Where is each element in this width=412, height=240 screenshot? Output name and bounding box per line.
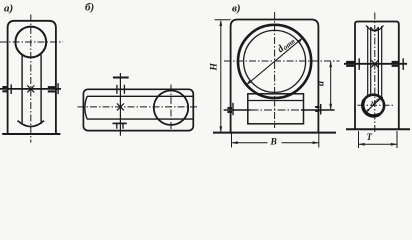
a label view v <box>315 81 326 86</box>
cylinder top line view b <box>87 95 193 97</box>
bottom base line view a <box>2 133 60 135</box>
screw stem view b <box>119 73 121 136</box>
slot bottom arc view a <box>18 121 45 127</box>
circle view b <box>154 91 188 125</box>
left screw tick view v <box>232 103 234 115</box>
B arrow left view v <box>232 141 238 144</box>
screw bottom ticks view b <box>117 123 123 128</box>
T dimension line side view <box>359 143 398 145</box>
slot outer left line side view <box>367 26 369 98</box>
cylinder bottom line view b <box>87 118 193 120</box>
slot inner right line side view <box>377 27 379 97</box>
cylinder break arc view b <box>85 96 87 119</box>
left screw nut bars view v <box>227 108 232 112</box>
body rectangle view b <box>83 89 193 130</box>
small diameter arrow side view <box>365 109 369 113</box>
screw top head bar view b <box>113 77 129 79</box>
inner hole circle view v <box>244 30 306 92</box>
frame outline side view <box>355 22 399 130</box>
horizontal centerline view b <box>78 106 200 108</box>
B dimension extension lines view v <box>232 134 319 148</box>
base line side view <box>346 128 410 130</box>
diameter arrow lower view v <box>247 80 252 85</box>
svg-text:б): б) <box>85 2 94 14</box>
small hole circle side view <box>363 95 385 117</box>
base block inner line view v <box>248 100 304 102</box>
vertical centerline view a <box>30 15 32 143</box>
circle view a <box>15 27 46 58</box>
right screw nut bars view v <box>315 107 319 111</box>
label d_otv view v <box>275 35 297 56</box>
right screw nut bars side view <box>392 62 399 66</box>
circle vertical centerline view b <box>170 85 172 131</box>
slot outer right line side view <box>381 26 383 98</box>
svg-text:Т: Т <box>367 132 373 142</box>
slot top outer arc side view <box>366 26 384 32</box>
slot inner left line side view <box>370 27 372 97</box>
a arrow bottom view v <box>329 104 332 110</box>
svg-text:в): в) <box>232 3 241 15</box>
right screw tick side view <box>402 58 404 70</box>
star intersection view b <box>117 103 124 110</box>
svg-text:В: В <box>270 137 277 147</box>
right screw tick view a <box>57 83 59 94</box>
T arrow left side view <box>359 143 365 146</box>
slot left line view a <box>21 55 23 124</box>
screw top ticks view b <box>117 85 125 94</box>
base block view v <box>248 94 304 124</box>
screw axis side view <box>344 63 407 65</box>
svg-text:а): а) <box>4 3 13 15</box>
frame outline view v <box>231 20 319 133</box>
H dimension extension top view v <box>215 19 231 21</box>
vertical centerline side view <box>374 13 376 134</box>
screw axis line view v <box>224 109 251 111</box>
svg-text:а: а <box>315 81 326 86</box>
B dimension line view v <box>232 142 319 144</box>
H arrow top view v <box>219 20 222 26</box>
left screw tick side view <box>358 58 360 70</box>
outer hole circle view v <box>238 25 311 98</box>
star intersection view a <box>27 85 34 92</box>
vertical centerline view v <box>274 12 276 128</box>
B arrow right view v <box>313 141 319 144</box>
right screw nut bars view a <box>48 87 55 91</box>
base line view v <box>213 132 336 134</box>
a dimension line view v <box>330 61 332 110</box>
H label view v <box>210 63 220 72</box>
left screw tick view a <box>10 84 12 94</box>
small diameter dimension side view <box>365 98 381 113</box>
left screw nut bars side view <box>346 62 354 66</box>
T arrow right side view <box>391 143 397 146</box>
horizontal centerline view a <box>0 41 63 43</box>
star intersection side view <box>371 60 378 67</box>
frame outline view a <box>8 21 56 134</box>
H arrow bottom view v <box>219 126 222 132</box>
horizontal centerline view v <box>224 60 340 62</box>
screw bottom bar view b <box>113 122 127 124</box>
T dimension extension lines side view <box>359 131 398 148</box>
svg-text:H: H <box>210 63 220 72</box>
slot right line view a <box>40 55 42 124</box>
H dimension line view v <box>220 21 222 132</box>
clamp screw axis view a <box>0 88 61 90</box>
left screw nut bars view a <box>2 87 7 91</box>
small circle centerline side view <box>358 104 394 106</box>
a arrow top view v <box>329 61 332 67</box>
slot top inner arc side view <box>371 27 379 31</box>
right screw tick view v <box>320 104 322 115</box>
diameter arrow upper view v <box>298 38 303 43</box>
diameter dimension line view v <box>247 38 303 85</box>
small circle dark arc side view <box>363 100 380 116</box>
small d label side view <box>369 94 385 108</box>
